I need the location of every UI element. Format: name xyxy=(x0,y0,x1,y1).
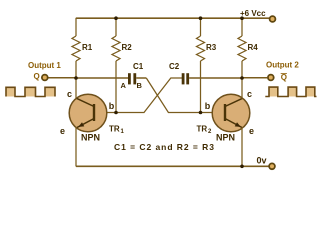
node B label xyxy=(137,81,143,90)
wire bottom rail xyxy=(76,165,269,167)
transistor TR2 collector lead xyxy=(225,78,243,107)
junction node A collector TR1 xyxy=(74,76,78,80)
terminal Q output 1 xyxy=(28,61,61,81)
wire R3 to base of TR2 xyxy=(200,61,202,113)
svg-text:R1: R1 xyxy=(82,43,93,52)
svg-text:0v: 0v xyxy=(257,156,267,166)
svg-text:A: A xyxy=(121,81,127,90)
transistor TR1 labels c b e TR1 NPN xyxy=(60,89,125,143)
node A label xyxy=(121,81,127,90)
svg-text:C1 = C2 and R2 = R3: C1 = C2 and R2 = R3 xyxy=(114,142,214,152)
wire R4 column top xyxy=(241,18,243,36)
waveform output 2 square wave xyxy=(265,87,316,96)
wire C2 left stub and cross-coupling to TR1 base xyxy=(107,78,182,113)
svg-text:B: B xyxy=(137,81,143,90)
svg-text:C1: C1 xyxy=(133,62,144,71)
terminal Q-bar output 2 xyxy=(266,61,299,83)
wire R1 column top xyxy=(75,18,77,36)
svg-text:NPN: NPN xyxy=(81,133,100,143)
svg-text:c: c xyxy=(247,89,252,99)
wire R1 to collector node xyxy=(75,61,77,78)
junction TR2 base xyxy=(199,111,203,115)
resistor R4 xyxy=(238,36,258,61)
terminal 0v xyxy=(257,156,275,170)
svg-text:b: b xyxy=(205,101,211,111)
junction bottom rail TR2 emitter xyxy=(240,165,244,169)
resistor R3 xyxy=(197,36,217,61)
svg-text:+6 Vcc: +6 Vcc xyxy=(240,9,266,18)
wire C2 right plate to TR2 collector node and output 2 xyxy=(189,77,267,79)
svg-text:1: 1 xyxy=(121,129,125,135)
transistor Q2 (TR2) body xyxy=(212,94,250,132)
svg-text:R3: R3 xyxy=(206,43,217,52)
svg-text:TR: TR xyxy=(197,125,208,134)
junction top rail R3 xyxy=(199,16,203,20)
waveform output 1 square wave xyxy=(6,87,55,96)
transistor TR1 emitter lead with arrow xyxy=(76,119,94,167)
svg-text:Q: Q xyxy=(281,73,287,82)
svg-text:e: e xyxy=(60,126,65,136)
transistor TR1 base bar xyxy=(93,104,95,121)
capacitor C2 xyxy=(169,62,189,84)
wire cross-coupling C1 B to TR2 base xyxy=(146,78,212,113)
svg-text:NPN: NPN xyxy=(216,133,235,143)
transistor TR2 emitter lead with arrow xyxy=(225,119,242,167)
wire R4 to collector node of TR2 xyxy=(241,61,243,78)
resistor R2 xyxy=(112,36,132,61)
transistor TR2 labels c b e TR2 NPN xyxy=(197,89,255,143)
junction top rail R4 xyxy=(240,16,244,20)
svg-text:R4: R4 xyxy=(248,43,259,52)
svg-text:c: c xyxy=(67,89,72,99)
wire R3 column top xyxy=(200,18,202,36)
svg-text:Output 2: Output 2 xyxy=(266,61,299,70)
wire R2 column top xyxy=(115,18,117,36)
svg-text:2: 2 xyxy=(208,129,212,135)
junction TR1 base xyxy=(114,111,118,115)
svg-text:TR: TR xyxy=(109,125,120,134)
resistor R1 xyxy=(72,36,93,61)
svg-text:Output 1: Output 1 xyxy=(28,61,61,70)
transistor TR1 collector lead xyxy=(76,78,94,107)
capacitor C1 xyxy=(128,62,144,84)
svg-text:C2: C2 xyxy=(169,62,180,71)
svg-text:b: b xyxy=(109,101,115,111)
wire top rail xyxy=(76,17,270,19)
note C1 = C2 and R2 = R3 xyxy=(114,142,214,152)
transistor Q1 (TR1) body xyxy=(69,94,107,132)
svg-text:e: e xyxy=(249,126,254,136)
svg-text:R2: R2 xyxy=(122,43,133,52)
junction TR2 collector node xyxy=(240,76,244,80)
junction top rail R2 xyxy=(114,16,118,20)
wire C1 right stub xyxy=(136,77,146,79)
wire output 1 row (Q terminal to node A / C1 left plate) xyxy=(48,77,129,79)
terminal +6 Vcc xyxy=(240,9,275,22)
wire R2 to base of TR1 xyxy=(115,61,117,113)
transistor TR2 base bar xyxy=(224,104,226,121)
svg-text:Q: Q xyxy=(34,72,40,81)
